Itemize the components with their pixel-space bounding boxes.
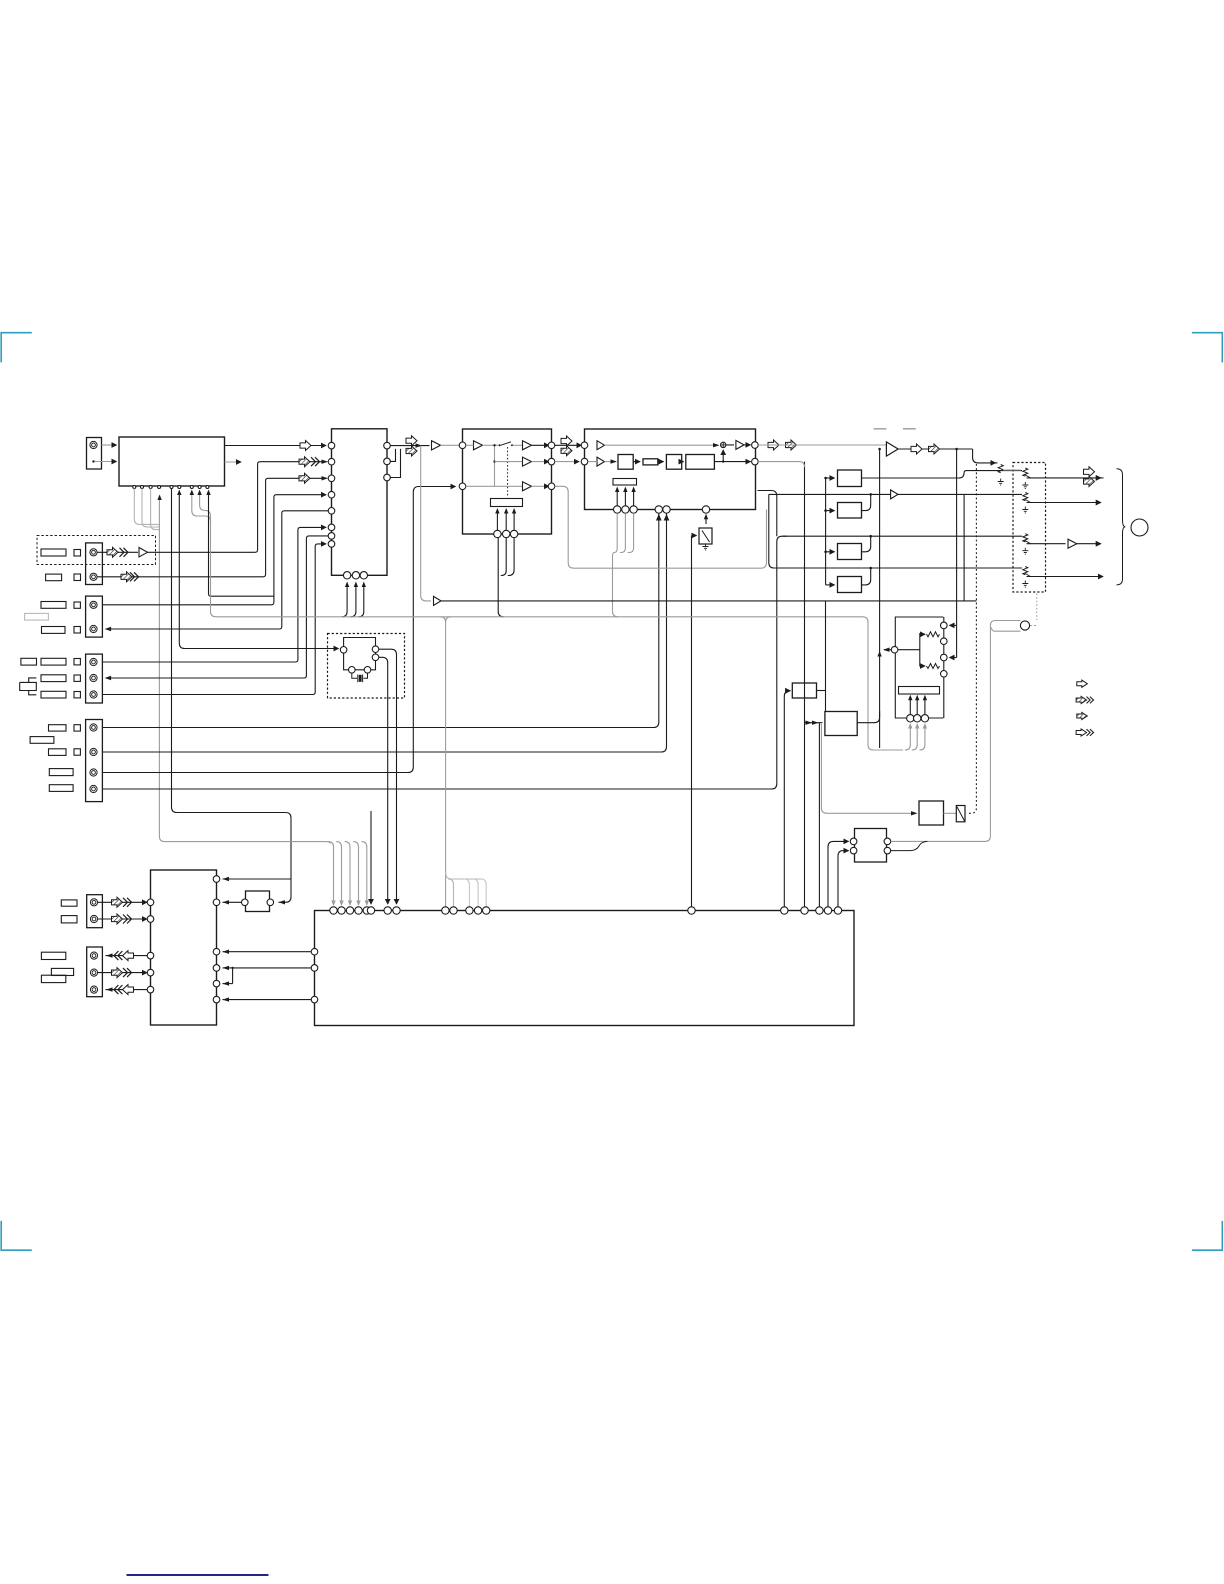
U2 bottom feeds from rail (342, 585, 347, 617)
vertical x964 tap (963, 494, 965, 601)
crystal out 2 (379, 657, 388, 904)
wire U3 to DSP pin2 gray (555, 461, 579, 463)
U2 left pin 1 (328, 442, 335, 449)
CN4 pin 2 (90, 674, 97, 681)
crystal pin bottom 1 (349, 667, 356, 674)
U3 bottom pin 1 (494, 530, 501, 537)
long line y568 (774, 567, 1022, 569)
U4 out wire 1 (744, 444, 751, 446)
U2 bottom pin 2 (352, 572, 359, 579)
rail hook into CPU pin b (464, 879, 469, 907)
signal arrow row1 (107, 547, 118, 557)
U3 dotted control line (507, 447, 509, 498)
wire row8 to DSP (102, 516, 658, 728)
hook to CPU pin 5 (362, 842, 367, 905)
U2 right pin 1 (384, 442, 391, 449)
J1 bottom pin 3 (921, 715, 928, 722)
U4 buffer 3 (726, 440, 744, 449)
J1 pin r4 (941, 671, 948, 678)
rail hook into CPU pin a (448, 879, 453, 907)
vertical to line601 (825, 601, 827, 712)
mute stub gray (992, 628, 1021, 632)
content (1, 333, 1222, 1575)
L2 pin left (242, 899, 249, 906)
dotted drop from frame (1036, 594, 1038, 621)
gray power rail main (211, 520, 904, 750)
wire row1 to IC (148, 462, 327, 553)
L1 left pin 1 (147, 899, 154, 906)
gray tap down to long bus (421, 446, 431, 601)
U3 out wires to pins (532, 444, 550, 446)
key square row5 (74, 659, 80, 665)
stray label dash 2 (903, 428, 916, 430)
drop J3 feed to CPU (783, 697, 785, 907)
U4 bottom pin 4 (655, 506, 662, 513)
U4 b3-b4 link (682, 461, 684, 463)
gray rail into J1 pins (905, 725, 910, 751)
label box row9 (49, 749, 67, 756)
signal arrow into pin2 (299, 457, 310, 467)
U4 left pin 1 (581, 442, 588, 449)
U3 switch (501, 442, 512, 446)
U2 bottom pin 3 (360, 572, 367, 579)
P1 ground (1022, 482, 1028, 489)
U4 bottom pin 6 (702, 506, 709, 513)
signal arrows after amp (911, 444, 922, 454)
label box row1 (41, 549, 66, 556)
connector CN1 pin 2 (92, 460, 94, 462)
R0 link gray (1003, 469, 1021, 471)
reset box J4 (825, 712, 857, 736)
K1 input gray (821, 724, 916, 813)
crystal X1 (352, 673, 368, 682)
U4 box b4 (686, 455, 715, 470)
J1 regulator res 1 (927, 632, 940, 637)
wire L1-L3 row 951 (223, 951, 312, 953)
label bracket row7 (20, 678, 37, 695)
wire row2 (97, 478, 326, 577)
K1 to K2 link gray (944, 812, 957, 814)
U1 bottom pin 1 (133, 486, 136, 489)
wire row11 to line bus (102, 536, 787, 789)
stray label dash 1 (874, 428, 887, 430)
wire U1 pin7 drop (192, 495, 211, 525)
dotted mute control line (967, 464, 977, 813)
U1 bottom pin 8 (198, 486, 201, 489)
U2 left pin 6 (328, 524, 335, 531)
wire U1 pin4 long drop to gray rail (159, 496, 164, 842)
K3 pin r1 (884, 838, 891, 845)
pot P1 (1023, 468, 1028, 476)
U2 bottom pin 1 (343, 572, 350, 579)
wire U1 pin5 drop to row 812 (172, 489, 292, 903)
line out row 2 (769, 494, 774, 568)
eq box F3 (838, 544, 862, 560)
K3 input 1 (828, 841, 849, 906)
U4 buffer 2 (597, 457, 605, 466)
U3 out buffer 3 (523, 482, 532, 491)
U1 bottom pin 5 (170, 486, 173, 489)
line out row 1 (758, 491, 777, 537)
U2 left pin 7 (328, 533, 335, 540)
CN7 pin 3 (90, 986, 97, 993)
U4 bottom pin 1 (614, 506, 621, 513)
L3 top pins cluster 1 (330, 907, 337, 914)
U4 right pin 2 (752, 458, 759, 465)
rail hook into CPU pin c (473, 879, 478, 907)
F2 output (862, 494, 871, 510)
key square row3 (74, 602, 80, 608)
L1 left pin 4 (147, 969, 154, 976)
wire T1 to blockC (441, 444, 459, 446)
gray rail branch down mid (440, 617, 451, 907)
CPU block L3 (315, 911, 855, 1026)
headphone brace (1117, 469, 1126, 585)
out line 3 (1027, 543, 1101, 545)
L1 right pin 4 (213, 965, 220, 972)
wire row1 (97, 551, 138, 553)
U4 rail feeds gray (613, 513, 618, 617)
signal arrow out open (406, 436, 417, 446)
wire L1-L3 row 967 (233, 968, 311, 984)
CN7 pin 2 (90, 969, 97, 976)
wire row10 to blockC (102, 487, 455, 773)
ripple box L2 (246, 891, 270, 912)
display driver L1 (151, 870, 217, 1025)
P4 (1023, 567, 1028, 575)
F input bus vertical (825, 478, 827, 585)
label box row2 (46, 574, 62, 581)
J1 pin r3 (941, 654, 948, 661)
drop x819 (818, 723, 820, 907)
F3 output (862, 536, 871, 552)
gray shield outline (555, 486, 767, 568)
U3 bottom pin 2 (503, 530, 510, 537)
L3 top pins cluster 2 (442, 907, 449, 914)
legend arrow 3 (1077, 712, 1088, 719)
amp out drop and hop (973, 449, 996, 463)
legend arrow 2 (1076, 696, 1087, 703)
F2 input (826, 510, 835, 512)
label box gray row4 (25, 613, 49, 620)
L1 right pin 1 (213, 876, 220, 883)
wire row4 (106, 511, 328, 629)
eq box F4 (838, 577, 862, 593)
J1 junction wire left (884, 649, 891, 651)
U3 bottom pin 3 (510, 530, 517, 537)
crop mark top-right (1192, 333, 1222, 363)
signal arrow out hatched (406, 446, 417, 456)
vertical to mute circuit (956, 449, 958, 658)
U3 bottom rails (498, 538, 503, 617)
U3 junction vertical (494, 445, 496, 486)
signal arrow into pin3 (299, 473, 310, 483)
crystal out 1 (379, 649, 397, 904)
CN7 wire 2 (98, 972, 147, 974)
headphone amp A1 (886, 442, 898, 456)
connector CN2 (86, 543, 103, 585)
legend arrow 4 (1076, 729, 1087, 736)
crystal pin left (340, 647, 347, 654)
U4 b4 out (714, 461, 750, 463)
J1 junction pin (891, 646, 898, 653)
triangle on y601 (434, 596, 442, 605)
U4 volume feeds (616, 489, 618, 506)
L1 right pin 3 (213, 948, 220, 955)
U3 left pin 1 (459, 442, 466, 449)
triangle on out 3 (1068, 539, 1077, 548)
crop mark bottom-right (1192, 1221, 1222, 1250)
hook to CPU pin 3 (345, 842, 350, 905)
K3 input 2 (838, 851, 849, 907)
wire row5 (102, 527, 326, 662)
wire U1 out 2 (225, 461, 242, 463)
out arrows stacked (1084, 467, 1095, 477)
amp out wire (898, 448, 973, 450)
tuner pin9 T-join (209, 495, 274, 597)
U3 out buffer 2 (523, 457, 532, 466)
selector block U3 (463, 429, 552, 534)
drop from DSP out2 (804, 462, 806, 907)
J4 output (857, 711, 879, 723)
U3 left pin 2 (459, 483, 466, 490)
sensor box K3 (855, 829, 887, 863)
U3 out buffer 1 (513, 444, 523, 446)
CN2 pin 1 (90, 549, 97, 556)
J1 pin r1 (941, 622, 948, 629)
U3 right pin 1 (548, 442, 555, 449)
L1 right pin 6 (213, 996, 220, 1003)
wire L1-L3 row 999 (223, 999, 312, 1001)
CN4 pin 1 (90, 658, 97, 665)
key square row4 (74, 627, 80, 634)
label box far row9 (30, 737, 54, 744)
P4 ground (1022, 581, 1028, 588)
U3 mid wire 3 (466, 485, 523, 487)
arrow up on amp feed (877, 651, 881, 657)
CN6 wire 1 (98, 901, 147, 903)
U3 mid wire 2 (495, 461, 523, 463)
U1 bottom pin 9 (206, 486, 209, 489)
crystal circuit outline (344, 638, 376, 647)
K3 pin l2 (850, 847, 857, 854)
L3 left pin 1 (311, 948, 318, 955)
L1 right pin 2 (213, 899, 220, 906)
U2 left pin 2 (328, 458, 335, 465)
U2 left pin 8 (328, 541, 335, 548)
wire row7 riser to IC pin8 (102, 544, 326, 695)
L3 top pin switch drop (688, 907, 695, 914)
eq box F2 (838, 503, 862, 519)
L1 left pin 2 (147, 916, 154, 923)
arrowhead pin3 (322, 476, 329, 480)
F4 output (862, 568, 871, 585)
CN5 pin 1 (90, 724, 97, 731)
U4 buffer 1 (597, 441, 605, 450)
CN6 pin 1 (90, 899, 97, 906)
hook to CPU pin 1 (328, 842, 333, 905)
U3 wire pin1 to buffer (466, 444, 474, 446)
amp feed vertical (879, 449, 881, 748)
wire U1 pin1 gray drop (134, 489, 159, 525)
J1 junction wire right (898, 649, 920, 651)
crop mark top-left (1, 333, 32, 363)
U4 b2-b3 link (658, 461, 664, 463)
key square row9 (74, 749, 80, 755)
J1 pin r2 (941, 638, 948, 645)
F1 input (826, 477, 835, 479)
out line 4 (1027, 576, 1104, 578)
wire CN1 to tuner in 1 (102, 444, 117, 446)
U3 volume box (491, 499, 523, 507)
DSP block U4 (585, 429, 756, 510)
S1 drop to CPU (691, 536, 693, 908)
CN6 wire 2 (98, 918, 147, 920)
L2 pin right (267, 899, 274, 906)
mute sense circle (1020, 621, 1029, 630)
hook to CPU pin 4 (353, 842, 358, 905)
input resistor R0 (998, 465, 1003, 473)
wire CN1 to tuner in 2 (95, 461, 117, 463)
U4 b1-b2 link (633, 461, 640, 463)
hook to CPU pin 2 (336, 842, 341, 905)
wire DSP to amp gray (758, 444, 886, 446)
buffer row1 (139, 548, 148, 558)
wire U1 out 1 (225, 445, 327, 447)
U2 left pin 3 (328, 475, 335, 482)
U4 wire to b1 (588, 461, 616, 463)
gray rail lower left (165, 842, 330, 844)
U2 out bus (390, 445, 429, 447)
crop mark bottom-left (1, 1221, 32, 1250)
junction at 956 (955, 448, 958, 451)
wire U1 pin8 drop (200, 495, 211, 521)
level pot frame dashed (1013, 463, 1046, 593)
headphone jack (1131, 519, 1148, 536)
wire U3 to DSP pin1 (555, 444, 582, 446)
triangle on y494 (891, 490, 898, 499)
eq box F1 (838, 470, 862, 487)
U3 out arrows stacked (561, 436, 572, 446)
R0 ground (998, 479, 1004, 486)
footer blue rule (127, 1574, 269, 1576)
K3 pin l1 (850, 838, 857, 845)
rail hook into CPU pin d (481, 879, 486, 907)
diode K2 (956, 806, 965, 822)
switch box S1 (699, 528, 712, 544)
L1 left pin 5 (147, 986, 154, 993)
U2 left pin 5 (328, 508, 335, 515)
J3 output link (817, 690, 826, 692)
J1 inner vertical (919, 633, 921, 667)
K3 output 2 hop (891, 841, 928, 850)
P2 (1023, 493, 1028, 501)
U4 sum node (721, 442, 726, 447)
legend arrow 1 (1077, 680, 1088, 687)
DSP pin drops (659, 513, 667, 515)
U3 buffer (474, 441, 483, 450)
connector CN3 (86, 596, 103, 637)
connector CN7 (87, 947, 103, 997)
crystal pin bottom 2 (364, 667, 371, 674)
buffer T1 (432, 441, 441, 450)
tuner block U1 (119, 437, 225, 486)
L3 left pin 3 (311, 996, 318, 1003)
key square row8 (74, 725, 80, 731)
U4 right pin 1 (752, 442, 759, 449)
U4 bottom pin 5 (663, 506, 670, 513)
J1 thin box feeds (909, 697, 911, 715)
U2 right pin3 step (390, 449, 400, 478)
CN3 pin 1 (90, 601, 97, 608)
crystal pin right 1 (372, 646, 379, 653)
U4 left pin 2 (581, 458, 588, 465)
power block J1 outline (895, 617, 944, 718)
L3 top pins cluster 3 (781, 907, 788, 914)
mute sense dashes (1030, 625, 1037, 627)
wire row6 riser to IC pin7 (106, 536, 328, 678)
U2 right pin 2 (384, 458, 391, 465)
F3 input (826, 551, 835, 553)
CN6 pin 2 (90, 915, 97, 922)
out line 2 (1027, 502, 1101, 504)
key square row1 (74, 550, 81, 557)
J1 thin box (899, 687, 940, 695)
label box far row5 (21, 658, 37, 665)
connector CN4 (86, 654, 103, 703)
crystal pin right 2 (372, 654, 379, 661)
label box row6 (41, 675, 66, 682)
U1 bottom pin 4 (158, 486, 161, 489)
U4 volume box (613, 479, 637, 486)
U4 top path gray (605, 444, 717, 446)
J3 feed from CPU (784, 691, 790, 697)
CN7 wire 3 backward (106, 989, 148, 991)
L1 left pin 3 (147, 952, 154, 959)
label box row7 (41, 691, 66, 698)
L3 left pin 2 (311, 965, 318, 972)
U4 box b1 (618, 455, 633, 470)
P3 (1023, 534, 1028, 542)
P2 ground (1022, 507, 1028, 514)
wire jog into L1 983 (223, 983, 233, 985)
CN5 pin 4 (90, 785, 97, 792)
K3 output gray up (891, 621, 1021, 842)
CN7 label 1 (41, 952, 65, 959)
key square row7 (74, 692, 80, 698)
K3 pin r2 (884, 847, 891, 854)
U1 bottom pin 2 (141, 486, 144, 489)
out line 1 (1027, 477, 1101, 479)
U1 bottom pin 6 (178, 486, 181, 489)
connector CN1 pin 1 (90, 441, 97, 448)
label box row4 (42, 627, 66, 634)
U3 right pin 2 (548, 458, 555, 465)
S1 ground (703, 544, 709, 550)
dashed option frame (37, 536, 156, 565)
L1 right pin 5 (213, 980, 220, 987)
CN7 wire 1 backward (106, 955, 148, 957)
arrowhead pin2 (322, 460, 329, 464)
wire U1 pin3 gray drop (151, 489, 160, 530)
U3 volume feeds (496, 511, 498, 531)
branch arrow into relay pin3 (950, 657, 957, 659)
J4 input arrows (805, 722, 823, 724)
signal arrow out 1 (300, 441, 311, 451)
crystal dashed frame (328, 634, 405, 699)
connector CN1 (87, 438, 102, 470)
J1 bottom pin 1 (907, 715, 914, 722)
